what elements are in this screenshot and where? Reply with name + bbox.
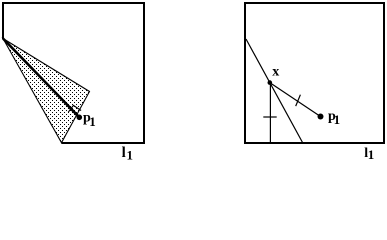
svg-text:x: x [272, 65, 279, 80]
svg-text:1: 1 [127, 147, 134, 162]
svg-text:1: 1 [89, 114, 96, 129]
svg-text:l: l [122, 145, 126, 161]
svg-text:1: 1 [368, 147, 375, 162]
svg-text:1: 1 [334, 112, 341, 127]
